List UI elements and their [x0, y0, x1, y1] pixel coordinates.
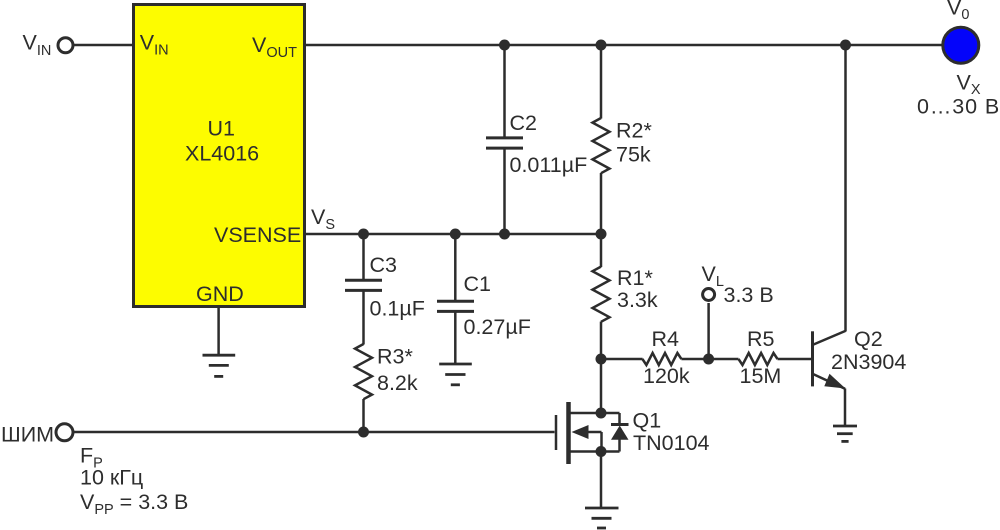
node C2 bottom — [499, 229, 510, 240]
wire R1 to R4 — [601, 358, 643, 361]
node C2 top — [499, 40, 510, 51]
svg-text:0.011µF: 0.011µF — [510, 153, 588, 177]
svg-text:8.2k: 8.2k — [377, 371, 418, 395]
wire VSENSE net — [306, 233, 601, 236]
wire C3 to R3 — [362, 291, 365, 345]
svg-text:3.3 В: 3.3 В — [724, 283, 774, 307]
ground under Q1 — [585, 508, 619, 528]
node Q2 collector branch — [840, 40, 851, 51]
svg-text:C1: C1 — [464, 272, 491, 296]
wire R1 top lead — [600, 234, 603, 267]
svg-text:10 кГц: 10 кГц — [80, 466, 143, 490]
wire R5 to Q2 base — [778, 358, 812, 361]
ground under U1 — [203, 355, 236, 376]
svg-text:VL: VL — [702, 262, 724, 290]
transistor Q1 MOSFET — [556, 402, 629, 464]
wire C3 top lead — [362, 234, 365, 280]
svg-text:VPP = 3.3 В: VPP = 3.3 В — [80, 490, 188, 518]
output terminal V0 — [943, 27, 979, 63]
wire R4 to R5 — [681, 358, 738, 361]
svg-text:Q2: Q2 — [854, 327, 883, 351]
svg-text:VSENSE: VSENSE — [214, 223, 301, 247]
node R2 bottom — [596, 229, 607, 240]
svg-text:0.27µF: 0.27µF — [464, 315, 531, 339]
IC U1 XL4016 body — [134, 5, 305, 307]
ground under C1 — [439, 364, 472, 385]
wire GND pin stem — [217, 308, 220, 355]
input terminal VIN — [58, 38, 73, 53]
wire VIN terminal to U1 — [73, 44, 132, 47]
svg-text:R2*: R2* — [616, 119, 652, 143]
input terminal PWM — [56, 424, 73, 441]
capacitor C3 — [345, 280, 382, 290]
node R1 bottom — [596, 354, 607, 365]
svg-text:R1*: R1* — [617, 266, 653, 290]
wire C1 top lead — [454, 234, 457, 301]
node Q1 drain — [596, 408, 607, 419]
wire Q2 emitter — [844, 389, 847, 427]
svg-text:3.3k: 3.3k — [617, 288, 658, 312]
wire C2 bottom lead — [503, 149, 506, 235]
wire R1 bottom lead — [600, 322, 603, 359]
svg-text:TN0104: TN0104 — [633, 431, 710, 455]
svg-text:75k: 75k — [616, 143, 651, 167]
svg-text:XL4016: XL4016 — [185, 142, 259, 166]
node Q1 source — [596, 446, 607, 457]
resistor R2 — [593, 118, 610, 173]
svg-text:Q1: Q1 — [633, 409, 662, 433]
wire R3 bottom lead — [362, 399, 365, 432]
svg-text:GND: GND — [196, 282, 244, 306]
resistor R3 — [355, 344, 372, 399]
svg-text:U1: U1 — [208, 117, 235, 141]
node C3 top — [358, 229, 369, 240]
svg-text:0.1µF: 0.1µF — [370, 297, 425, 321]
svg-text:VS: VS — [311, 205, 335, 233]
wire VL lead — [707, 303, 710, 359]
resistor R5 — [739, 353, 778, 365]
svg-text:R5: R5 — [747, 327, 775, 351]
node C1 top — [450, 229, 461, 240]
svg-text:C3: C3 — [370, 253, 398, 277]
svg-text:VIN: VIN — [23, 31, 52, 60]
resistor R4 — [642, 353, 681, 365]
svg-text:V0: V0 — [947, 0, 969, 23]
svg-text:2N3904: 2N3904 — [831, 350, 906, 374]
wire C1 bottom lead — [454, 312, 457, 364]
svg-text:R3*: R3* — [377, 345, 413, 369]
terminal VL — [703, 289, 715, 301]
node R2 top — [596, 40, 607, 51]
wire VOUT top net — [306, 44, 942, 47]
wire R2 bottom lead — [600, 173, 603, 234]
node R3 bottom on PWM net — [358, 427, 369, 438]
resistor R1 — [593, 267, 610, 322]
svg-text:0…30 В: 0…30 В — [917, 94, 1000, 118]
wire Q2 collector — [844, 45, 847, 332]
svg-text:R4: R4 — [652, 327, 680, 351]
svg-text:15M: 15M — [740, 364, 782, 388]
transistor Q2 — [813, 331, 846, 389]
node VL tap — [703, 354, 714, 365]
wire R2 top lead — [600, 45, 603, 119]
wire Q1 drain lead — [600, 359, 603, 413]
svg-text:ШИМ: ШИМ — [1, 423, 54, 447]
svg-text:120k: 120k — [643, 364, 690, 388]
wire PWM net — [74, 431, 555, 434]
wire C2 top lead — [503, 45, 506, 137]
capacitor C2 — [486, 138, 523, 148]
capacitor C1 — [437, 301, 474, 311]
svg-text:C2: C2 — [510, 111, 537, 135]
wire Q1 source to ground — [600, 452, 603, 509]
ground under Q2 — [833, 426, 857, 441]
